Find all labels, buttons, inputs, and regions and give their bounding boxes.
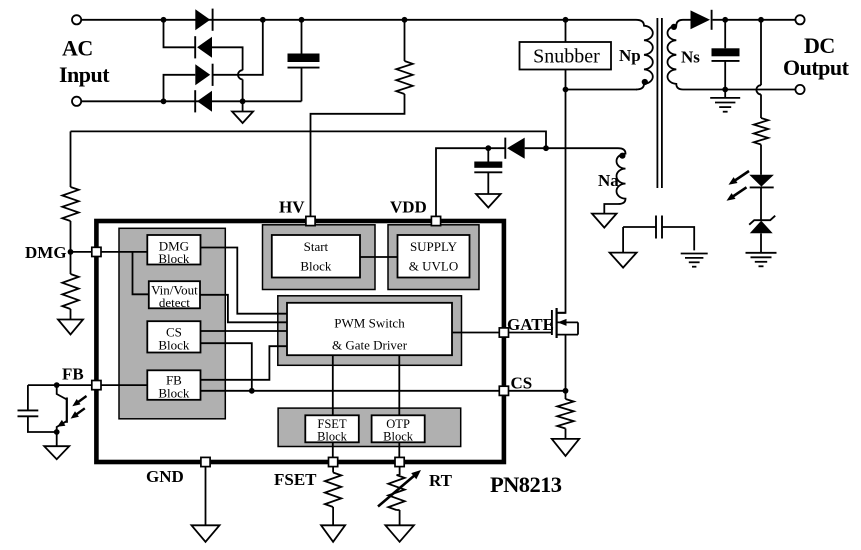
wire: CS pin to sense resistor xyxy=(508,390,565,392)
wire: FB pin to opto collector xyxy=(28,384,92,386)
wire: DMG sense line from aux winding xyxy=(71,131,547,148)
opto light arrow 1 xyxy=(72,396,86,406)
junction: top rail at snubber xyxy=(563,17,569,23)
transformer aux winding Na xyxy=(604,148,625,213)
LED: optocoupler diode xyxy=(749,175,774,220)
polarity dot Na xyxy=(619,153,625,159)
opto light arrow 2 xyxy=(71,408,85,418)
block: PWM Switch & Gate Driver xyxy=(287,303,452,355)
resistor: HV startup resistor xyxy=(311,20,413,217)
wire: aux winding line to VDD diode xyxy=(525,147,618,149)
transformer secondary winding Ns xyxy=(667,20,683,90)
capacitor: VDD cap xyxy=(474,148,502,194)
bridge diode D3 xyxy=(195,64,212,86)
wire: PWM to OTP Block and RT pin xyxy=(398,355,400,457)
label DMG xyxy=(25,243,67,262)
wire: feedback string (hop over bottom rail) xyxy=(756,20,761,118)
svg-text:Input: Input xyxy=(59,62,110,87)
junction: CS node xyxy=(563,388,569,394)
transformer core xyxy=(657,18,662,188)
svg-text:GND: GND xyxy=(146,467,184,486)
svg-text:Block: Block xyxy=(300,259,332,274)
resistor: FSET xyxy=(325,467,341,526)
svg-text:FSET: FSET xyxy=(274,470,317,489)
block: CS Block xyxy=(147,321,200,352)
svg-text:Block: Block xyxy=(383,430,414,444)
RT arrow xyxy=(378,470,421,507)
label FSET xyxy=(274,470,317,489)
pin HV xyxy=(306,216,315,225)
resistor: LED series xyxy=(754,118,768,175)
resistor: CS sense xyxy=(557,391,573,439)
svg-text:DMG: DMG xyxy=(25,243,67,262)
wire: DMG node to pin xyxy=(71,251,93,253)
label AC Input xyxy=(59,36,110,88)
resistor: DMG lower divider xyxy=(62,252,78,320)
svg-text:Block: Block xyxy=(158,251,190,266)
pin GND xyxy=(201,457,210,466)
label DC Output xyxy=(783,33,850,80)
region: supply block xyxy=(388,225,479,290)
junction: opto emitter node xyxy=(54,429,60,435)
svg-text:CS: CS xyxy=(511,374,533,393)
ground: Y-cap primary side xyxy=(610,253,637,268)
svg-text:Output: Output xyxy=(783,55,850,80)
IC PN8213 outline xyxy=(96,221,504,462)
svg-text:Snubber: Snubber xyxy=(533,46,600,68)
label HV xyxy=(279,198,305,217)
pin FSET xyxy=(329,457,338,466)
ground: RT xyxy=(385,525,414,542)
wire: CS Block to PWM xyxy=(201,330,289,332)
junction: DMG node xyxy=(68,249,74,255)
resistor: DMG upper divider xyxy=(62,131,78,252)
svg-text:SUPPLY: SUPPLY xyxy=(410,239,458,254)
label FB xyxy=(62,365,84,384)
label PN8213 xyxy=(490,472,562,497)
ground: Y-cap secondary side (earth) xyxy=(681,254,708,267)
wire: PWM to FSET Block and pin xyxy=(332,355,334,457)
wire: Vin/Vout detect to PWM xyxy=(200,295,288,323)
svg-text:Start: Start xyxy=(304,239,329,254)
svg-text:Np: Np xyxy=(619,46,641,65)
junction: CS block tap on CS net xyxy=(249,388,255,394)
wire: FB pin to FB Block xyxy=(101,384,147,386)
block: SUPPLY & UVLO xyxy=(398,235,470,278)
polarity dot Np xyxy=(642,79,648,85)
label GATE xyxy=(507,315,554,334)
junction: top rail at bridge right xyxy=(260,17,266,23)
wire: VDD diode to pin xyxy=(436,148,505,216)
svg-text:& Gate Driver: & Gate Driver xyxy=(332,338,408,353)
polarity dot Ns xyxy=(671,24,677,30)
bridge diode D2 xyxy=(195,36,212,58)
svg-text:RT: RT xyxy=(429,471,453,490)
wire: AC line1 to bridge diode D2 xyxy=(164,20,196,48)
wire/ground: GND pin xyxy=(192,467,220,542)
diode: output rectifier xyxy=(691,10,712,30)
wire: AC bottom rail xyxy=(81,100,301,102)
svg-text:GATE: GATE xyxy=(507,315,554,334)
junction: output cap bottom xyxy=(722,87,728,93)
pin VDD xyxy=(431,216,440,225)
region: fset/otp blocks xyxy=(278,408,461,446)
svg-text:Na: Na xyxy=(598,171,619,190)
diode: VDD rectifier xyxy=(505,138,524,159)
block: FSET Block xyxy=(305,415,359,443)
resistor: RT thermistor xyxy=(388,467,404,526)
block: OTP Block xyxy=(372,415,425,443)
wire: CS Block to CS net xyxy=(201,343,252,391)
block: Start Block xyxy=(272,235,360,278)
wire: D2 anode down to ground node (hop over D3 wire) xyxy=(212,47,243,101)
svg-text:Ns: Ns xyxy=(681,48,700,67)
ground: opto emitter xyxy=(44,432,69,459)
label GND xyxy=(146,467,184,486)
zener diode: feedback reference xyxy=(749,216,775,253)
junction: DMG tap on aux line xyxy=(543,145,549,151)
block: DMG Block xyxy=(147,235,200,266)
ground: secondary output (earth) xyxy=(710,90,740,112)
svg-text:PWM Switch: PWM Switch xyxy=(334,316,405,331)
MOSFET Q1 xyxy=(552,308,578,391)
junction: bottom rail at bridge left xyxy=(161,98,167,104)
bridge diode D4 xyxy=(195,90,212,112)
wire: GATE pin to MOSFET gate xyxy=(508,332,551,334)
ground: VDD cap xyxy=(476,194,501,208)
junction: VDD cap xyxy=(485,145,491,151)
svg-text:AC: AC xyxy=(62,36,93,61)
svg-text:PN8213: PN8213 xyxy=(490,472,562,497)
pin RT xyxy=(395,457,404,466)
ground: aux winding xyxy=(592,214,617,228)
wire: FB Block to CS pin (CS net) xyxy=(201,390,500,392)
junction: output cap top xyxy=(722,17,728,23)
junction: bridge negative node xyxy=(240,98,246,104)
label RT xyxy=(429,471,453,490)
svg-text:VDD: VDD xyxy=(390,198,427,217)
wire: DMG Block to PWM xyxy=(201,248,289,314)
wire: snubber vertical / primary switch node xyxy=(557,20,637,313)
AC input terminal bottom xyxy=(72,97,81,106)
svg-text:FB: FB xyxy=(62,365,84,384)
DC output terminal bottom xyxy=(795,85,804,94)
wire: D3 cathode up to positive rail xyxy=(213,20,263,75)
label Ns xyxy=(681,48,700,67)
wire: PWM to GATE pin xyxy=(452,332,500,334)
region: pwm block xyxy=(278,296,462,366)
block: FB Block xyxy=(147,370,200,400)
transformer primary winding Np xyxy=(636,20,653,90)
pin DMG xyxy=(92,247,101,256)
label Na xyxy=(598,171,619,190)
pin GATE xyxy=(499,328,508,337)
junction: top rail at bridge left xyxy=(161,17,167,23)
DC output terminal top xyxy=(795,15,804,24)
svg-text:detect: detect xyxy=(159,295,190,310)
svg-text:Block: Block xyxy=(158,338,190,353)
ground: CS sense xyxy=(552,439,579,456)
AC input terminal top xyxy=(72,15,81,24)
wire: Start Block to SUPPLY xyxy=(360,256,398,258)
block: Vin/Vout detect xyxy=(149,281,200,310)
pin CS xyxy=(499,386,508,395)
capacitor: output filter cap xyxy=(712,20,740,90)
ground: zener (earth) xyxy=(746,253,777,266)
opto emitter arrow xyxy=(57,420,67,427)
svg-text:HV: HV xyxy=(279,198,305,217)
bridge diode D1 xyxy=(195,9,212,31)
capacitor: bulk filter cap xyxy=(288,20,320,102)
pin FB xyxy=(92,381,101,390)
junction: top rail at filter cap xyxy=(299,17,305,23)
svg-text:Block: Block xyxy=(317,430,348,444)
junction: primary bottom / snubber xyxy=(563,87,569,93)
junction: feedback string top xyxy=(758,17,764,23)
junction: FB node xyxy=(54,382,60,388)
wire: FB Block to PWM xyxy=(201,346,289,380)
wire: DMG pin to DMG Block and Vin/Vout detect xyxy=(101,252,149,294)
label Np xyxy=(619,46,641,65)
svg-text:& UVLO: & UVLO xyxy=(409,259,458,274)
region: start block xyxy=(263,225,376,290)
region: left blocks xyxy=(119,228,225,418)
junction: top rail at HV resistor xyxy=(402,17,408,23)
label VDD xyxy=(390,198,427,217)
LED light arrow 2 xyxy=(727,187,747,201)
wire: AC line2 to bridge diode D3 xyxy=(164,75,196,102)
LED light arrow 1 xyxy=(729,171,750,185)
wire: AC top rail to transformer primary xyxy=(81,19,636,21)
wire: secondary top rail xyxy=(683,19,795,21)
label CS xyxy=(511,374,533,393)
capacitor: FB filter xyxy=(18,385,57,432)
ground: FSET xyxy=(321,525,345,542)
optocoupler phototransistor xyxy=(57,385,67,432)
capacitor: Y-cap primary-secondary xyxy=(623,216,694,253)
snubber box xyxy=(520,42,612,70)
wire: secondary bottom rail xyxy=(683,89,795,91)
svg-text:Block: Block xyxy=(158,386,190,401)
ground: DMG divider xyxy=(58,320,83,335)
ground: bridge negative xyxy=(232,101,253,123)
